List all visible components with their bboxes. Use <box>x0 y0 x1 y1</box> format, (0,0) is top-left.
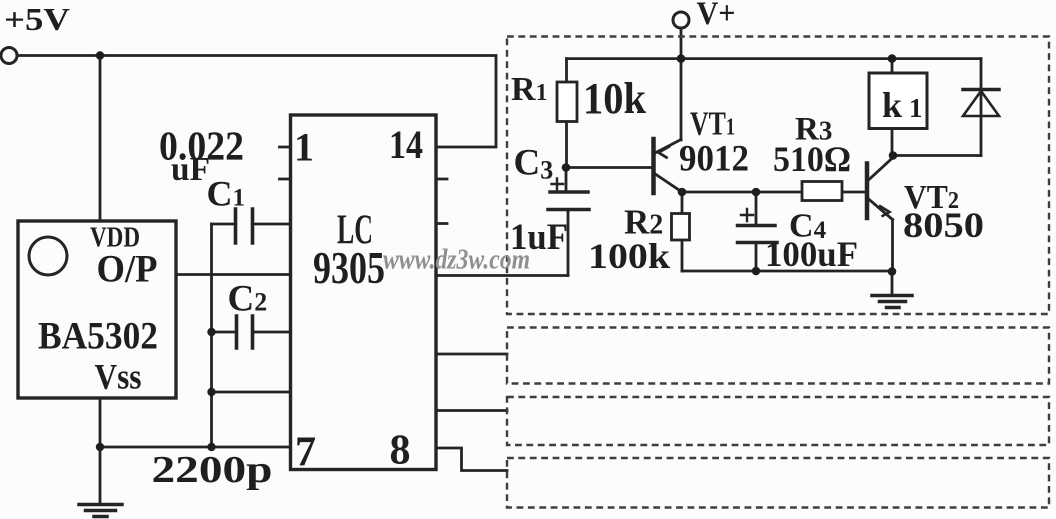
svg-text:1: 1 <box>294 125 314 170</box>
svg-text:V+: V+ <box>697 0 736 32</box>
svg-text:9305: 9305 <box>313 243 385 293</box>
svg-text:100k: 100k <box>588 236 670 276</box>
svg-text:8050: 8050 <box>903 205 984 245</box>
svg-text:10k: 10k <box>583 74 646 123</box>
svg-text:510Ω: 510Ω <box>773 139 851 179</box>
svg-text:Vss: Vss <box>95 357 142 397</box>
svg-text:www.dz3w.com: www.dz3w.com <box>383 244 530 276</box>
svg-text:BA5302: BA5302 <box>38 315 158 358</box>
svg-text:8: 8 <box>390 428 411 474</box>
svg-text:2200p: 2200p <box>152 449 273 491</box>
svg-text:O/P: O/P <box>97 248 158 291</box>
svg-text:14: 14 <box>389 122 423 167</box>
svg-text:+5V: +5V <box>4 1 70 37</box>
svg-text:7: 7 <box>295 430 316 476</box>
svg-text:9012: 9012 <box>679 139 749 180</box>
svg-text:uF: uF <box>171 151 210 188</box>
svg-text:100uF: 100uF <box>765 234 858 274</box>
